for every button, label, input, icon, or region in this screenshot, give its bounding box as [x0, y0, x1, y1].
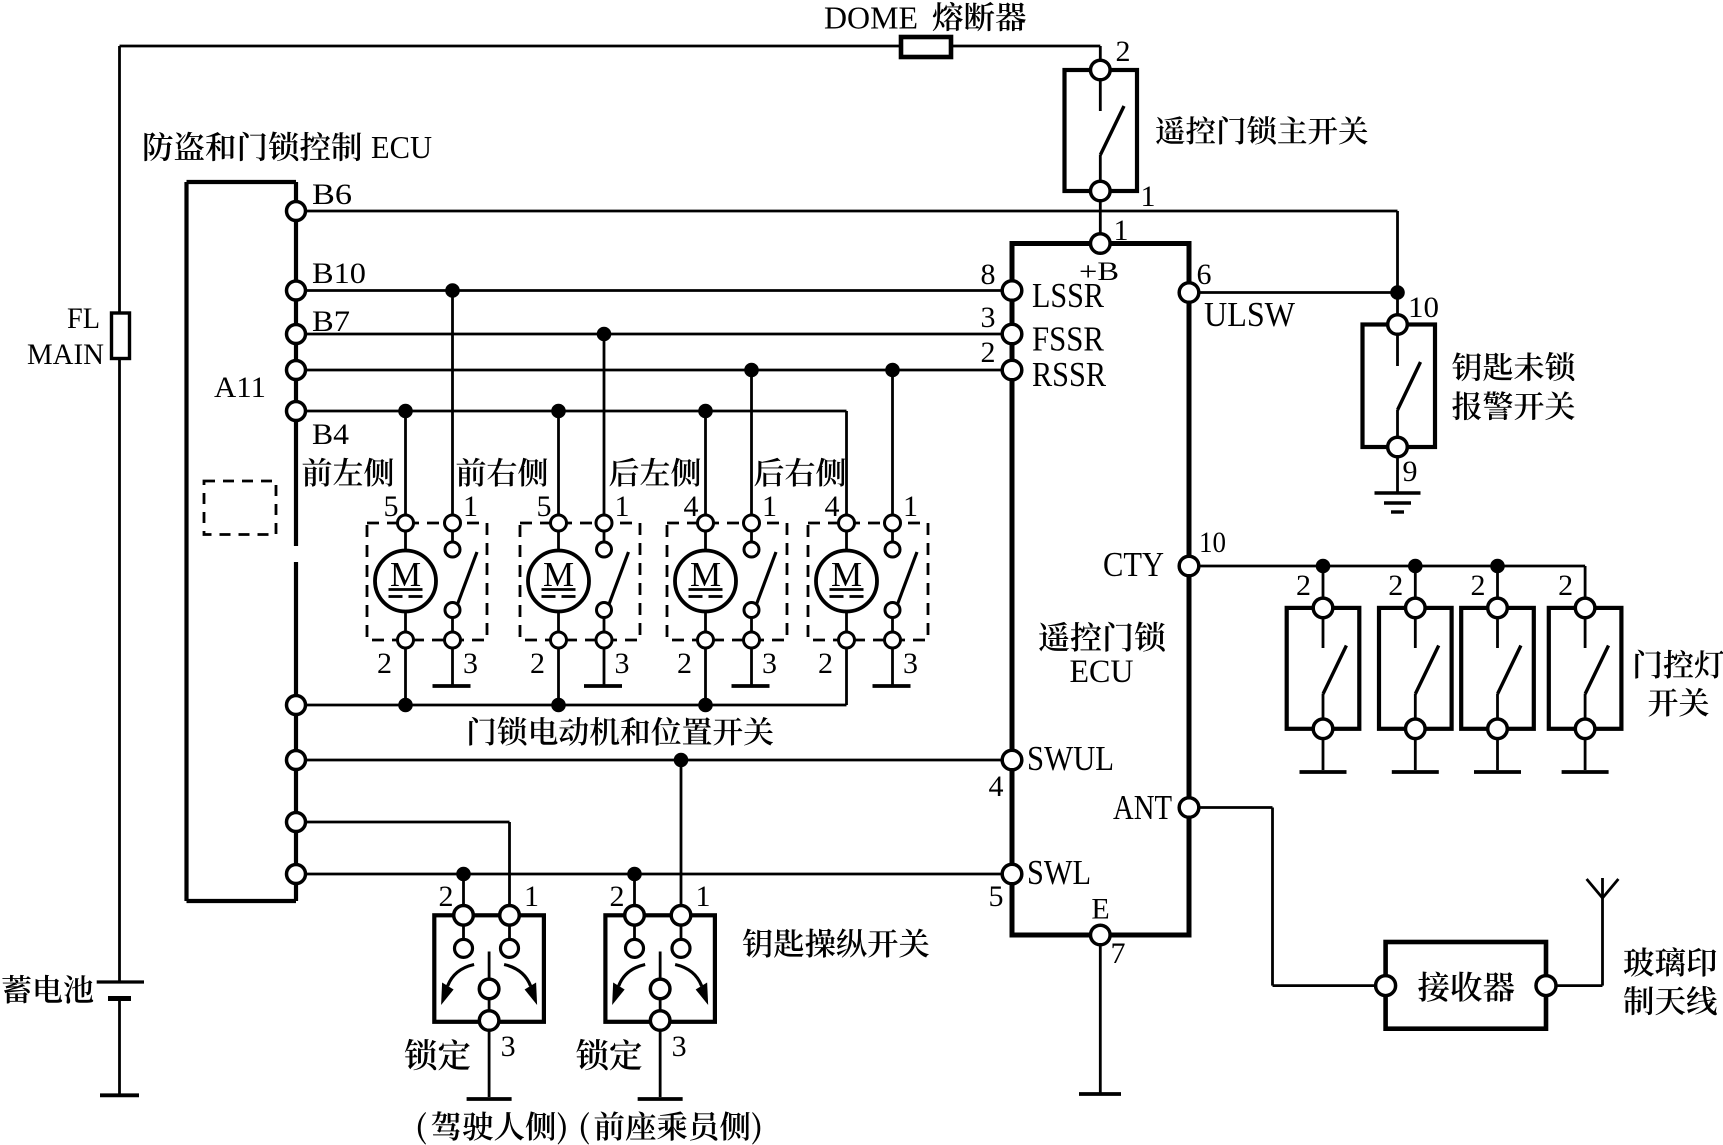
- rotor contact of key switch 1: [479, 979, 499, 999]
- antenna 玻璃印制天线 symbol: [1587, 879, 1619, 898]
- svg-text:1: 1: [696, 880, 711, 913]
- svg-text:5: 5: [989, 880, 1004, 913]
- pin 1 of main switch: [1091, 181, 1111, 201]
- wire SWUL junction down to key switch 2 pin 1: [680, 760, 683, 906]
- box 防盗和门锁控制 ECU (anti-theft and door lock control ECU): [187, 182, 297, 901]
- svg-text:ANT: ANT: [1113, 788, 1172, 827]
- pin name SWL: [1027, 853, 1091, 892]
- svg-text:B10: B10: [312, 257, 366, 290]
- pin name SWUL: [1027, 739, 1114, 778]
- pin 5 of motor unit 1: [398, 515, 414, 531]
- pin 8 LSSR: [1002, 281, 1022, 301]
- pin label 2: [1558, 569, 1573, 602]
- svg-text:2: 2: [1116, 35, 1131, 68]
- pin label 4: [989, 770, 1004, 803]
- fuse FL MAIN: [112, 313, 130, 359]
- motor M1: [375, 531, 436, 612]
- pin name E: [1091, 893, 1109, 926]
- svg-text:B7: B7: [312, 305, 350, 338]
- svg-text:2: 2: [1471, 569, 1486, 602]
- ground of key switch 1: [467, 1097, 512, 1101]
- pin label 5: [537, 490, 552, 523]
- wire CTY net to door light switches: [1199, 566, 1585, 599]
- pin label 1 (+B pin of remote ECU): [1114, 214, 1129, 247]
- svg-text:DOME: DOME: [824, 0, 918, 36]
- wire pin 2 of unit 4 down to common bus: [845, 648, 848, 705]
- svg-text:8: 8: [981, 258, 996, 291]
- svg-text:3: 3: [981, 301, 996, 334]
- wire ULSW pin to junction: [1199, 291, 1398, 294]
- junction CTY / door switch 3: [1490, 559, 1505, 574]
- junction common/unit1: [398, 698, 413, 713]
- label 前右侧 (door 2): [457, 458, 548, 487]
- pin 1 of motor unit 4: [885, 515, 901, 531]
- pin label 1: [696, 880, 711, 913]
- pin 1 of motor unit 1: [445, 515, 461, 531]
- svg-text:4: 4: [684, 490, 699, 523]
- svg-text:4: 4: [825, 490, 840, 523]
- ground of position switch 2: [584, 684, 622, 688]
- pin label 3: [501, 1030, 516, 1063]
- pin 2 of door switch 2: [1406, 598, 1426, 618]
- pin label A11: [214, 371, 266, 404]
- door lock motor unit 4 dashed enclosure: [808, 523, 928, 640]
- svg-text:B6: B6: [312, 178, 352, 211]
- fuse DOME (熔断器): [901, 37, 951, 57]
- svg-text:RSSR: RSSR: [1032, 355, 1107, 394]
- ground of door switch 3: [1474, 770, 1521, 774]
- motor M3: [675, 531, 736, 612]
- pin label 8: [981, 258, 996, 291]
- junction B4/unit2: [551, 404, 566, 419]
- pin name ANT: [1113, 788, 1172, 827]
- pin name FSSR: [1032, 320, 1105, 359]
- svg-text:1: 1: [903, 490, 918, 523]
- pin B6 of control ECU: [287, 202, 306, 221]
- junction CTY / door switch 1: [1316, 559, 1331, 574]
- pin (SWL side) of control ECU: [287, 865, 306, 884]
- wire pin 3 of unit 4 to ground: [891, 648, 894, 685]
- pin label 3: [463, 647, 478, 680]
- pin label 3: [981, 301, 996, 334]
- box 遥控门锁 ECU (remote door lock ECU): [1012, 244, 1189, 936]
- pin (motor common) of control ECU: [287, 696, 306, 715]
- svg-text:3: 3: [463, 647, 478, 680]
- bottom pin of door switch 2: [1406, 719, 1426, 739]
- wire down to door switch 3 pin 2: [1496, 566, 1499, 599]
- junction RSSR/unit3: [744, 363, 759, 378]
- label 锁定 (lock) for key switch 2: [576, 1039, 641, 1070]
- svg-text:3: 3: [762, 647, 777, 680]
- wire down to key switch 2 pin 2: [633, 874, 636, 906]
- pin 5 SWL: [1002, 864, 1022, 884]
- wire pin 2 of unit 3 down to common bus: [704, 648, 707, 705]
- pin 5 of motor unit 2: [551, 515, 567, 531]
- junction LSSR/unit1: [445, 283, 460, 298]
- wire FL MAIN fuse to battery +: [118, 359, 121, 982]
- wire net B7 / FSSR: [296, 333, 1003, 336]
- pin label 2: [439, 880, 454, 913]
- wire net SWL: [296, 873, 1003, 876]
- svg-text:2: 2: [530, 647, 545, 680]
- wire top power rail from FL MAIN to DOME fuse: [120, 45, 902, 48]
- wire net B6 to unlock warning branch: [296, 211, 1398, 293]
- pin B10 of control ECU: [287, 281, 306, 300]
- wire motor 2 pin 5 up to bus: [557, 411, 560, 515]
- wire net A11 / RSSR: [296, 369, 1003, 372]
- wire motor 3 pin 4 up to bus: [704, 411, 707, 515]
- svg-text:2: 2: [377, 647, 392, 680]
- pin label 3: [903, 647, 918, 680]
- svg-text:5: 5: [537, 490, 552, 523]
- label (前座乘员侧) front passenger side: [581, 1111, 760, 1144]
- ground of position switch 1: [433, 684, 471, 688]
- pin label 2: [981, 336, 996, 369]
- pin 2 of motor unit 4: [839, 612, 855, 649]
- door light switch 3 body: [1461, 608, 1534, 729]
- junction B4/unit3: [698, 404, 713, 419]
- wire key switch 2 pin 3 to ground: [659, 1030, 662, 1097]
- ground of door switch 1: [1300, 770, 1347, 774]
- wire net B10 / LSSR: [296, 289, 1003, 292]
- key operated switch 1 body: [434, 915, 544, 1022]
- wire position switch 3 pin 1 up to bus: [750, 370, 753, 515]
- pin label B10: [312, 257, 366, 290]
- svg-text:7: 7: [1111, 937, 1126, 970]
- door lock motor unit 1 dashed enclosure: [367, 523, 487, 640]
- ground of remote ECU E pin: [1079, 1092, 1121, 1096]
- pin label 3: [672, 1030, 687, 1063]
- pin 2 of key switch 2: [625, 906, 645, 926]
- pin label 3: [762, 647, 777, 680]
- label DOME 熔断器: [824, 0, 1026, 36]
- svg-text:10: 10: [1199, 526, 1226, 559]
- pin 3 of key switch 2: [650, 1011, 670, 1031]
- key operated switch 2 body: [605, 915, 715, 1022]
- svg-text:1: 1: [524, 880, 539, 913]
- pin 10 CTY: [1179, 556, 1199, 576]
- pin label B4: [312, 418, 349, 451]
- pin name LSSR: [1032, 276, 1105, 315]
- junction common/unit3: [698, 698, 713, 713]
- pin label 7: [1111, 937, 1126, 970]
- label FL MAIN: [27, 302, 104, 371]
- svg-text:SWUL: SWUL: [1027, 739, 1114, 778]
- pin 2 of key switch 1: [454, 906, 474, 926]
- pin label 5: [989, 880, 1004, 913]
- pin 6 ULSW: [1179, 283, 1199, 303]
- bottom pin of door switch 1: [1313, 719, 1333, 739]
- pin 2 of motor unit 2: [551, 612, 567, 649]
- junction RSSR/unit4: [885, 363, 900, 378]
- pin label 2: [610, 880, 625, 913]
- pin label 5: [384, 490, 399, 523]
- wire door switch 2 to ground: [1414, 739, 1417, 770]
- label 遥控门锁主开关: [1156, 116, 1368, 145]
- pin A11 of control ECU: [287, 361, 306, 380]
- pin 1 of key switch 2: [671, 906, 691, 926]
- svg-text:SWL: SWL: [1027, 853, 1091, 892]
- wire down to key switch 1 pin 2: [462, 874, 465, 906]
- svg-text:2: 2: [1558, 569, 1573, 602]
- pin 2 of door switch 3: [1488, 598, 1508, 618]
- rotor contact of key switch 2: [650, 979, 670, 999]
- label 钥匙操纵开关: [743, 929, 929, 958]
- svg-text:10: 10: [1408, 291, 1439, 324]
- pin label B7: [312, 305, 350, 338]
- label 防盗和门锁控制 ECU: [144, 129, 432, 165]
- pin label 2: [1388, 569, 1403, 602]
- pin 4 of motor unit 4: [839, 515, 855, 531]
- wire door switch 4 to ground: [1584, 739, 1587, 770]
- pin 1 of key switch 1: [500, 906, 520, 926]
- ground of door switch 2: [1392, 770, 1439, 774]
- ground of key switch 2: [638, 1097, 683, 1101]
- wire motor 1 pin 5 up to bus: [404, 411, 407, 515]
- svg-text:2: 2: [1296, 569, 1311, 602]
- pin label B6: [312, 178, 352, 211]
- svg-text:2: 2: [1388, 569, 1403, 602]
- bottom pin of door switch 4: [1575, 719, 1595, 739]
- svg-text:3: 3: [615, 647, 630, 680]
- position switch 3: [744, 531, 776, 632]
- pin label 2: [818, 647, 833, 680]
- pin label +B: [1079, 257, 1119, 286]
- svg-text:ECU: ECU: [371, 129, 432, 165]
- wire ANT pin to receiver: [1199, 808, 1375, 986]
- motor M2: [528, 531, 589, 612]
- pin 3 of key switch 1: [479, 1011, 499, 1031]
- wire motor 4 pin 4 up to bus: [845, 411, 848, 515]
- junction SWUL / key switch 2 pin 1: [674, 753, 689, 768]
- svg-text:3: 3: [672, 1030, 687, 1063]
- svg-text:1: 1: [762, 490, 777, 523]
- wire door switch 1 to ground: [1322, 739, 1325, 770]
- pin label 1: [615, 490, 630, 523]
- wire pin 2 of unit 2 down to common bus: [557, 648, 560, 705]
- pin label 10: [1199, 526, 1226, 559]
- svg-text:A11: A11: [214, 371, 266, 404]
- motor M4: [816, 531, 877, 612]
- ground of position switch 3: [732, 684, 770, 688]
- pin 3 of motor unit 2: [596, 632, 612, 648]
- wire door switch 3 to ground: [1496, 739, 1499, 770]
- pin name RSSR: [1032, 355, 1107, 394]
- svg-text:3: 3: [501, 1030, 516, 1063]
- wire DOME fuse to main switch pin 2: [951, 46, 1100, 62]
- pin B7 of control ECU: [287, 325, 306, 344]
- svg-text:2: 2: [818, 647, 833, 680]
- switch 钥匙未锁报警开关 (key unlock warning switch) body: [1363, 325, 1436, 448]
- junction common/unit2: [551, 698, 566, 713]
- wire position switch 4 pin 1 up to bus: [891, 370, 894, 515]
- pin (SWUL side) of control ECU: [287, 751, 306, 770]
- svg-text:5: 5: [384, 490, 399, 523]
- pin label 2: [677, 647, 692, 680]
- pin 3 of motor unit 1: [445, 632, 461, 648]
- pin 10 of warning switch: [1388, 315, 1408, 335]
- junction B4/unit1: [398, 404, 413, 419]
- svg-text:2: 2: [610, 880, 625, 913]
- pin name ULSW: [1204, 295, 1295, 334]
- wire net motor common (unlock drive): [296, 704, 847, 707]
- svg-text:1: 1: [1141, 180, 1156, 213]
- pin label 1: [524, 880, 539, 913]
- pin +B of remote ECU: [1091, 234, 1111, 254]
- svg-text:ULSW: ULSW: [1204, 295, 1295, 334]
- pin 2 RSSR: [1002, 360, 1022, 380]
- svg-text:1: 1: [615, 490, 630, 523]
- svg-text:B4: B4: [312, 418, 349, 451]
- contact circles of key switch 1: [455, 939, 519, 957]
- pin 4 of motor unit 3: [698, 515, 714, 531]
- wire net SWUL: [296, 759, 1003, 762]
- pin 2 of motor unit 1: [398, 612, 414, 649]
- pin label 1: [463, 490, 478, 523]
- pin 4 SWUL: [1002, 750, 1022, 770]
- wire pin 3 of unit 3 to ground: [750, 648, 753, 685]
- pin label 2: [377, 647, 392, 680]
- svg-text:MAIN: MAIN: [27, 338, 104, 371]
- pin 9 of warning switch: [1388, 437, 1408, 457]
- pin label 2: [1296, 569, 1311, 602]
- ground of door switch 4: [1562, 770, 1609, 774]
- pin label 2: [1471, 569, 1486, 602]
- junction node B6/ULSW/warning switch: [1390, 285, 1405, 300]
- svg-text:6: 6: [1197, 258, 1212, 291]
- svg-text:2: 2: [981, 336, 996, 369]
- pin 2 of main switch: [1091, 60, 1111, 80]
- wire left rail down to FL MAIN fuse: [118, 46, 121, 313]
- wire E pin to ground: [1099, 945, 1102, 1093]
- pin label 2: [1116, 35, 1131, 68]
- ground of battery: [100, 1093, 139, 1097]
- wire down to door switch 1 pin 2: [1322, 566, 1325, 599]
- label 玻璃印制天线: [1624, 947, 1717, 1015]
- svg-text:ECU: ECU: [1070, 654, 1134, 690]
- svg-text:2: 2: [677, 647, 692, 680]
- pin label 2: [530, 647, 545, 680]
- pin 2 of motor unit 3: [698, 612, 714, 649]
- door light switch 2 body: [1379, 608, 1452, 729]
- wire key switch 1 pin 3 to ground: [488, 1030, 491, 1097]
- pin label 10: [1408, 291, 1439, 324]
- wire pin 3 of unit 1 to ground: [451, 648, 454, 685]
- position switch 4: [885, 531, 917, 632]
- position switch 2: [597, 531, 629, 632]
- label 遥控门锁 ECU: [1039, 622, 1165, 690]
- wire down to door switch 2 pin 2: [1414, 566, 1417, 599]
- label 门控灯开关: [1635, 650, 1723, 717]
- wire junction down to warning switch pin 10: [1396, 293, 1399, 317]
- battery 蓄电池: [97, 982, 144, 999]
- wire receiver to glass antenna: [1556, 878, 1603, 986]
- ground of warning switch (earth): [1375, 493, 1421, 512]
- svg-text:4: 4: [989, 770, 1004, 803]
- pin 3 FSSR: [1002, 324, 1022, 344]
- svg-text:LSSR: LSSR: [1032, 276, 1105, 315]
- label 后右侧 (door 4): [754, 458, 845, 487]
- svg-text:CTY: CTY: [1103, 545, 1164, 584]
- wire battery - to ground: [118, 1001, 121, 1094]
- dashed connector box inside ECU: [204, 481, 276, 535]
- wire warning switch pin 9 to ground: [1396, 457, 1399, 492]
- svg-text:9: 9: [1403, 455, 1418, 488]
- svg-text:3: 3: [903, 647, 918, 680]
- pin 3 of motor unit 3: [744, 632, 760, 648]
- pin 2 of door switch 4: [1575, 598, 1595, 618]
- wire position switch 1 pin 1 up to bus: [451, 291, 454, 516]
- door light switch 1 body: [1287, 608, 1360, 729]
- pin label 6: [1197, 258, 1212, 291]
- pin label 9: [1403, 455, 1418, 488]
- box 接收器 (receiver): [1386, 942, 1546, 1029]
- right pin of receiver: [1536, 976, 1556, 996]
- label 钥匙未锁报警开关: [1452, 352, 1574, 420]
- label (驾驶人侧) driver side: [418, 1111, 566, 1144]
- left pin of receiver: [1376, 976, 1396, 996]
- wire position switch 2 pin 1 up to bus: [603, 334, 606, 515]
- pin label 4: [825, 490, 840, 523]
- wire net to key switch 1 pin 1: [296, 822, 510, 906]
- svg-text:FSSR: FSSR: [1032, 320, 1105, 359]
- pin label 1: [903, 490, 918, 523]
- label 门锁电动机和位置开关: [469, 717, 773, 746]
- door lock motor unit 3 dashed enclosure: [667, 523, 787, 640]
- svg-text:1: 1: [463, 490, 478, 523]
- label 蓄电池: [2, 975, 93, 1004]
- bottom pin of door switch 3: [1488, 719, 1508, 739]
- wire pin 3 of unit 2 to ground: [603, 648, 606, 685]
- label 锁定 (lock) for key switch 1: [405, 1039, 470, 1070]
- wire net B4 (motor lock drive): [296, 410, 847, 413]
- label 前左侧 (door 1): [303, 458, 394, 487]
- switch 遥控门锁主开关 (remote door lock main switch) body: [1065, 70, 1138, 191]
- junction SWL / key switch 2 pin 2: [627, 867, 642, 882]
- pin label 3: [615, 647, 630, 680]
- ground of position switch 4: [873, 684, 911, 688]
- pin label 4: [684, 490, 699, 523]
- wire pin 2 of unit 1 down to common bus: [404, 648, 407, 705]
- junction CTY / door switch 2: [1408, 559, 1423, 574]
- pin 1 of motor unit 2: [596, 515, 612, 531]
- pin 7 E: [1091, 925, 1111, 945]
- junction FSSR/unit2: [597, 327, 612, 342]
- pin ANT: [1179, 798, 1199, 818]
- pin name CTY: [1103, 545, 1164, 584]
- pin 3 of motor unit 4: [885, 632, 901, 648]
- pin B4 of control ECU: [287, 402, 306, 421]
- svg-text:FL: FL: [67, 302, 100, 335]
- position switch 1: [445, 531, 477, 632]
- contact circles of key switch 2: [626, 939, 691, 957]
- pin 2 of door switch 1: [1313, 598, 1333, 618]
- pin label 1: [762, 490, 777, 523]
- label 接收器: [1418, 971, 1514, 1001]
- door light switch 4 body: [1549, 608, 1622, 729]
- svg-text:E: E: [1091, 893, 1109, 926]
- pin label 1: [1141, 180, 1156, 213]
- pin 1 of motor unit 3: [744, 515, 760, 531]
- svg-text:2: 2: [439, 880, 454, 913]
- pin (key sw 1) of control ECU: [287, 813, 306, 832]
- label 后左侧 (door 3): [609, 458, 700, 487]
- junction SWL / key switch 1 pin 2: [456, 867, 471, 882]
- door lock motor unit 2 dashed enclosure: [520, 523, 640, 640]
- wire main switch pin 1 down to +B node: [1099, 201, 1102, 234]
